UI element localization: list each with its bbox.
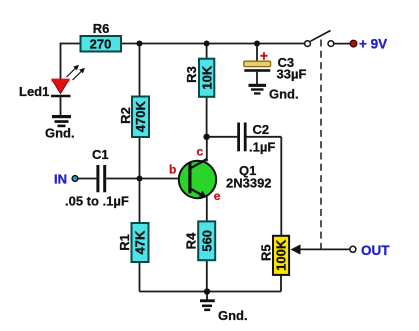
wire R4 bottom [206, 260, 208, 291]
wire R3 bottom to collector node [206, 97, 208, 137]
potentiometer R5 [259, 236, 301, 275]
wire R1 top [139, 179, 141, 224]
wire ground stub bottom [206, 292, 208, 300]
resistor R2 [118, 97, 149, 138]
wire collector vertical [206, 137, 208, 162]
svg-text:b: b [169, 163, 176, 177]
OUT terminal [350, 243, 390, 258]
svg-text:47K: 47K [133, 230, 148, 254]
wire C1 to base [106, 178, 189, 180]
resistor R3 [184, 59, 214, 97]
switch S1 [305, 31, 334, 47]
wire switch to 9V dot [334, 43, 351, 45]
wire R2 top [139, 44, 141, 97]
wire R2 bottom [139, 137, 141, 179]
svg-text:100K: 100K [274, 239, 289, 271]
resistor R6 [81, 21, 122, 52]
node top rail R2 junction [137, 41, 143, 47]
node bottom rail ground junction [204, 288, 210, 294]
node base junction [137, 176, 143, 182]
node top rail C3 junction [254, 41, 260, 47]
wire LED top drop [60, 43, 62, 80]
dashed gang line switch to pot [320, 40, 322, 249]
wire IN to C1 [78, 178, 96, 180]
LED Led1 [19, 65, 85, 99]
svg-text:33µF: 33µF [277, 67, 307, 82]
svg-text:.05 to .1µF: .05 to .1µF [65, 194, 129, 209]
svg-text:Gnd.: Gnd. [45, 126, 75, 141]
wire OUT from wiper [299, 248, 350, 250]
svg-text:c: c [197, 145, 204, 159]
wire C2 down to R5 [280, 137, 282, 236]
wire emitter vertical [206, 197, 208, 222]
transistor Q1 [169, 145, 272, 203]
node collector junction [203, 134, 209, 140]
svg-text:R4: R4 [184, 232, 199, 249]
svg-text:e: e [214, 189, 221, 203]
svg-text:270: 270 [90, 37, 112, 52]
wire top rail right segment [121, 43, 305, 45]
svg-text:Gnd.: Gnd. [218, 308, 248, 323]
capacitor C3 electrolytic [244, 49, 307, 82]
capacitor C2 [239, 122, 276, 155]
svg-text:470K: 470K [133, 101, 148, 133]
+9V terminal [350, 37, 387, 52]
svg-text:R2: R2 [118, 107, 133, 124]
svg-text:+: + [260, 49, 268, 64]
wire C3 top [256, 44, 258, 62]
svg-text:R6: R6 [93, 21, 110, 36]
wire top rail left segment [61, 43, 81, 45]
wire C2 right [246, 136, 281, 138]
svg-text:R1: R1 [117, 234, 132, 251]
ground under Led1 [45, 115, 75, 141]
svg-text:IN: IN [54, 172, 67, 187]
svg-text:R3: R3 [184, 66, 199, 83]
wire R3 top [206, 44, 208, 59]
wire C2 left [207, 136, 238, 138]
svg-text:C2: C2 [253, 122, 270, 137]
ground under C3 [249, 84, 299, 102]
resistor R1 [117, 223, 148, 262]
svg-text:10K: 10K [199, 65, 214, 89]
wire bottom rail [140, 291, 282, 293]
svg-text:+ 9V: + 9V [359, 37, 387, 52]
svg-text:Led1: Led1 [19, 84, 49, 99]
wire R5 bottom [280, 275, 282, 292]
ground bottom center [200, 299, 248, 323]
svg-text:R5: R5 [259, 244, 274, 261]
wire LED cathode to ground [60, 97, 62, 116]
svg-text:Gnd.: Gnd. [269, 87, 299, 102]
node top rail R3 junction [204, 41, 210, 47]
svg-text:.1µF: .1µF [249, 140, 275, 155]
svg-text:OUT: OUT [361, 243, 390, 258]
resistor R4 [184, 221, 216, 260]
wire R1 bottom [139, 262, 141, 292]
svg-text:2N3392: 2N3392 [226, 176, 272, 191]
svg-text:560: 560 [199, 230, 214, 252]
capacitor C1 [65, 147, 129, 209]
wire C3 bottom to ground [256, 72, 258, 84]
svg-text:C1: C1 [92, 147, 109, 162]
IN terminal [54, 172, 78, 187]
